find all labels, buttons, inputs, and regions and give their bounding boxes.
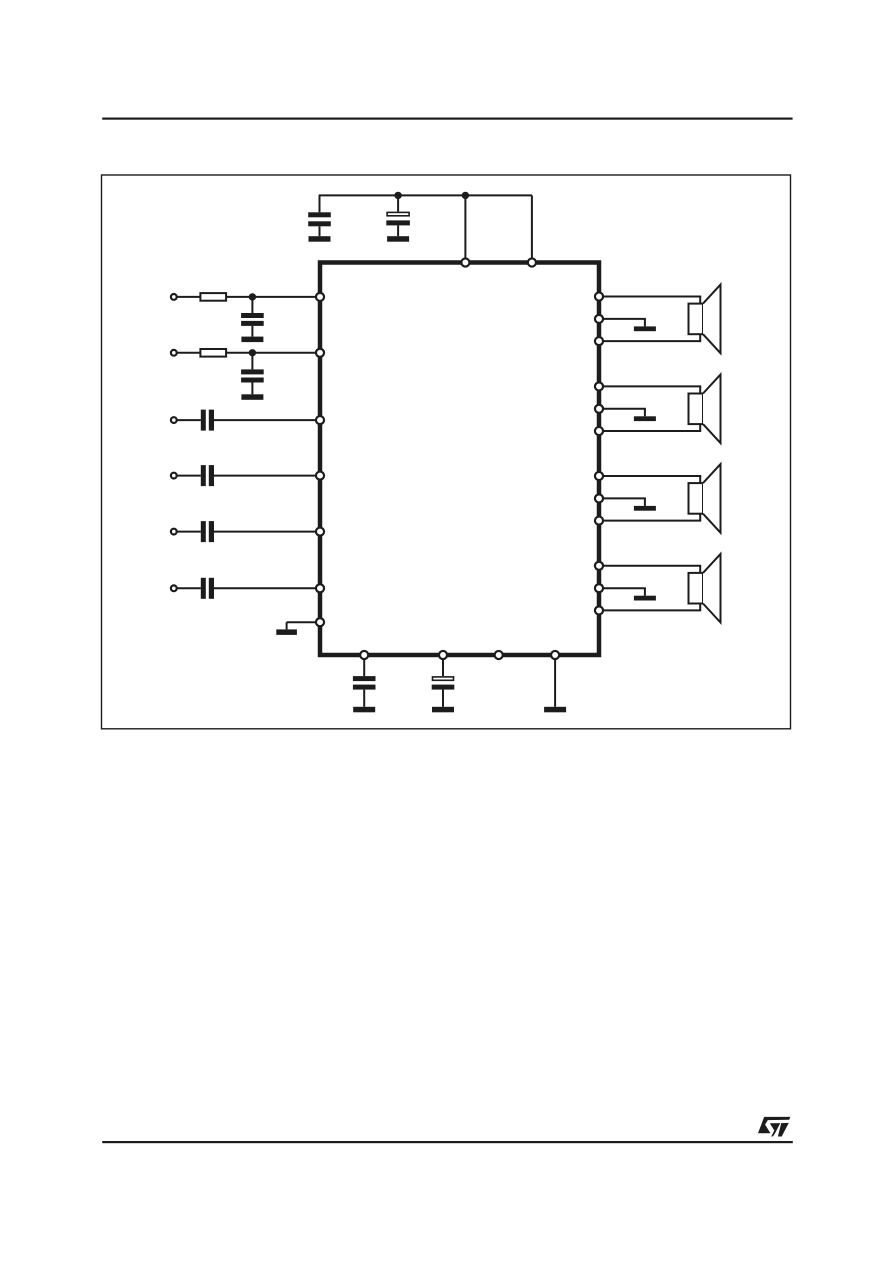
wire OUT4- to speaker — [599, 604, 701, 611]
ground (speaker LS3 return) — [634, 506, 656, 511]
wire node to pin IN2 — [252, 352, 320, 354]
wire IN5 to C7 — [177, 531, 201, 533]
capacitor C6 — [201, 465, 214, 486]
wire IN4 to C6 — [177, 475, 201, 477]
wire C4 stem — [251, 353, 253, 370]
terminal input IN3 — [171, 417, 177, 423]
wire C1 to ground — [319, 226, 321, 236]
wire IN2 to R2 — [177, 352, 201, 354]
speaker LS2 — [689, 375, 721, 444]
wire C2 to ground — [397, 225, 399, 236]
wire C5 to pin IN3 — [214, 419, 320, 421]
wire to Vs pin 1 — [464, 195, 466, 262]
wire C8 to pin IN6 — [214, 587, 320, 589]
ground (below C4) — [241, 394, 263, 400]
wire IN6 to C8 — [177, 587, 201, 589]
pin IN5 — [316, 528, 324, 536]
page header rule — [102, 118, 792, 120]
wire R1 to node — [226, 296, 252, 298]
wire S-GND pin — [287, 621, 320, 623]
wire OUT2- to speaker — [599, 424, 701, 431]
ground (below C3) — [241, 337, 263, 343]
pin IN4 — [316, 472, 324, 480]
wire S-GND stem — [286, 622, 288, 629]
wire Vs supply rail — [319, 194, 532, 196]
pin NC — [495, 651, 503, 659]
capacitor C3 — [241, 313, 264, 326]
node supply junction B — [462, 192, 469, 199]
pin OUT3+ — [595, 472, 603, 480]
wire C3 stem — [251, 297, 253, 313]
wire C8 to ground — [442, 690, 444, 707]
capacitor C2 (electrolytic, + plate) — [386, 212, 410, 225]
figure border frame — [102, 175, 791, 729]
pin IN6 — [316, 584, 324, 592]
capacitor C1 — [308, 212, 331, 226]
pin OUT1+ — [595, 292, 603, 300]
ground (speaker LS4 return) — [634, 596, 656, 601]
terminal input IN2 — [171, 350, 177, 356]
speaker LS1 — [689, 285, 721, 354]
capacitor C8 — [201, 578, 214, 599]
op-amp IC U1 (power amplifier block) — [320, 263, 599, 656]
pin IN3 — [316, 416, 324, 424]
pin GND4 — [595, 584, 603, 592]
resistor R1 — [200, 293, 226, 301]
terminal input IN5 — [171, 529, 177, 535]
pin Vs2 — [528, 258, 536, 266]
resistor R2 — [200, 349, 226, 357]
wire C2 stem — [397, 195, 399, 211]
wire C7 stem — [363, 655, 365, 676]
pin IN1 — [316, 293, 324, 301]
wire P-GND stem — [554, 655, 556, 707]
wire OUT1+ to speaker — [599, 297, 701, 304]
ground (power ground) — [544, 707, 566, 713]
terminal input IN1 — [171, 294, 177, 300]
wire GND1 — [599, 319, 646, 327]
wire GND2 — [599, 409, 646, 417]
wire C8 stem — [442, 655, 444, 676]
wire C6 to pin IN4 — [214, 475, 320, 477]
capacitor C4 — [241, 369, 264, 382]
wire OUT2+ to speaker — [599, 386, 701, 393]
wire C7 to ground — [363, 690, 365, 707]
ground (speaker LS2 return) — [634, 416, 656, 421]
wire OUT3- to speaker — [599, 514, 701, 521]
pin GND1 — [595, 315, 603, 323]
node supply junction A — [394, 192, 401, 199]
capacitor C7 — [201, 521, 214, 542]
wire GND3 — [599, 498, 646, 506]
ground (speaker LS1 return) — [634, 326, 656, 331]
wire IN3 to C5 — [177, 419, 201, 421]
pin OUT2+ — [595, 382, 603, 390]
wire C4 to ground — [251, 383, 253, 395]
wire GND4 — [599, 588, 646, 596]
pin GND3 — [595, 494, 603, 502]
wire C1 stem — [319, 195, 321, 212]
pin OUT1- — [595, 337, 603, 345]
capacitor C7 — [353, 676, 376, 690]
wire OUT1- to speaker — [599, 334, 701, 341]
capacitor C8 (electrolytic, + plate) — [432, 677, 455, 690]
ground (below C2) — [387, 236, 409, 242]
pin Vs1 — [461, 258, 469, 266]
ground (below C8) — [432, 707, 454, 713]
pin OUT4+ — [595, 562, 603, 570]
ground (below C1) — [309, 236, 331, 242]
node input junction 1 — [249, 293, 256, 300]
capacitor C5 — [201, 410, 214, 431]
page footer rule — [102, 1141, 793, 1143]
logo ST (STMicroelectronics) — [758, 1117, 790, 1137]
wire IN1 to R1 — [177, 296, 201, 298]
speaker LS3 — [689, 464, 721, 533]
wire to Vs pin 2 — [531, 195, 533, 262]
ground (signal ground) — [276, 629, 297, 635]
pin OUT3- — [595, 517, 603, 525]
wire C7 to pin IN5 — [214, 531, 320, 533]
ground (below C7) — [353, 707, 375, 713]
pin SVR — [360, 651, 368, 659]
wire OUT4+ to speaker — [599, 566, 701, 573]
terminal input IN4 — [171, 473, 177, 479]
pin P-GND — [551, 651, 559, 659]
pin S-GND — [316, 618, 324, 626]
pin OUT4- — [595, 606, 603, 614]
terminal input IN6 — [171, 585, 177, 591]
wire node to pin IN1 — [252, 296, 320, 298]
pin OUT2- — [595, 427, 603, 435]
pin GND2 — [595, 405, 603, 413]
wire R2 to node — [226, 352, 252, 354]
wire OUT3+ to speaker — [599, 476, 701, 483]
wire C3 to ground — [251, 326, 253, 337]
pin IN2 — [316, 349, 324, 357]
node input junction 2 — [249, 349, 256, 356]
pin ST-BY — [439, 651, 447, 659]
speaker LS4 — [689, 554, 721, 623]
